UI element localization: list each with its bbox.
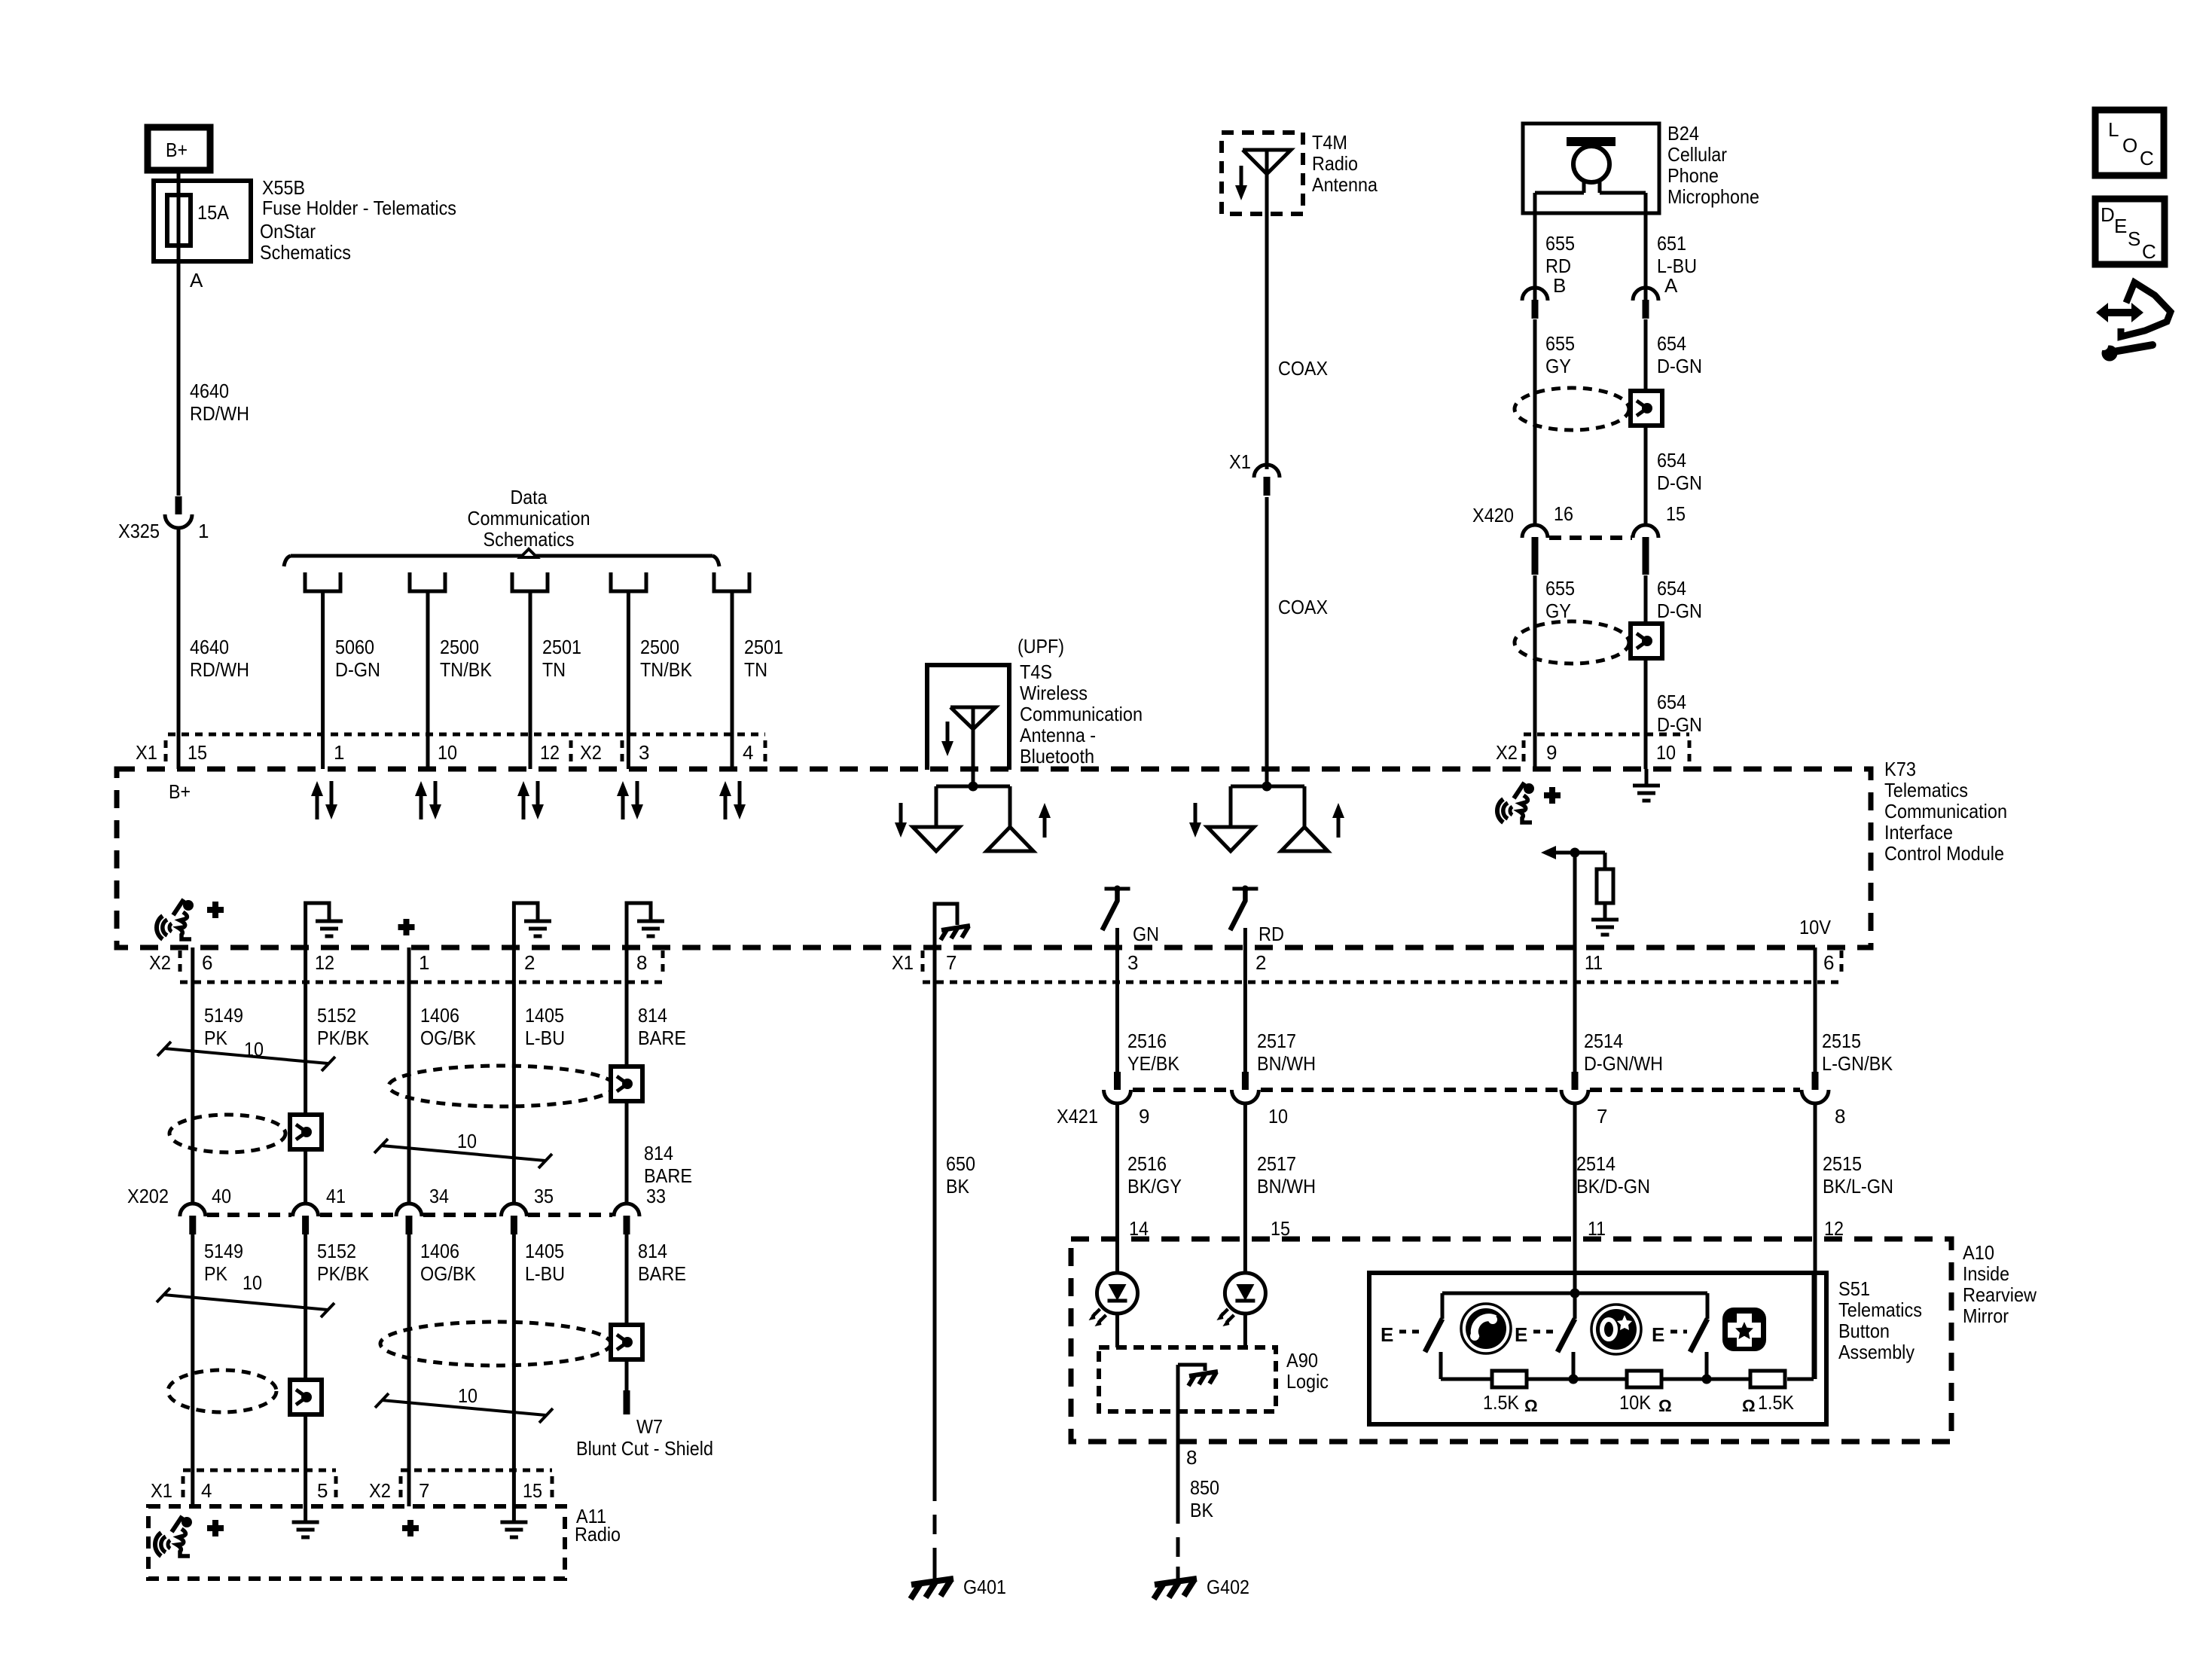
svg-text:X202: X202 <box>127 1185 169 1207</box>
arrow down (T4M pair) <box>1189 803 1201 838</box>
svg-text:Communication: Communication <box>468 507 590 529</box>
power symbol B+ <box>148 127 210 170</box>
label E switch 3 <box>1652 1323 1687 1346</box>
twisted pair ellipse 5149/5152 lower <box>168 1370 276 1412</box>
resistor 1.5K <box>1492 1371 1527 1387</box>
icon wrench <box>2099 341 2153 362</box>
svg-text:8: 8 <box>1835 1105 1845 1128</box>
wire label 1406 OG/BK <box>420 1004 477 1049</box>
svg-text:15A: 15A <box>197 201 230 224</box>
antenna symbol up (T4S) <box>987 827 1033 851</box>
svg-text:B24: B24 <box>1667 122 1699 145</box>
svg-text:BN/WH: BN/WH <box>1257 1052 1316 1075</box>
svg-text:PK/BK: PK/BK <box>317 1027 370 1049</box>
logic A90 dashed box <box>1099 1347 1276 1411</box>
svg-text:BK/GY: BK/GY <box>1127 1175 1182 1198</box>
svg-text:850: 850 <box>1190 1476 1219 1499</box>
svg-text:L-GN/BK: L-GN/BK <box>1822 1052 1893 1075</box>
svg-text:10: 10 <box>243 1271 262 1294</box>
svg-text:2: 2 <box>1256 951 1266 974</box>
connector X202 pin 33 <box>614 1185 666 1234</box>
svg-text:2516: 2516 <box>1127 1030 1167 1052</box>
svg-text:3: 3 <box>1127 951 1138 974</box>
wire label 5149 PK (2) <box>204 1240 243 1285</box>
label K73 Telematics Communication Interface Control Module <box>1884 758 2007 865</box>
bottom bus S51 with resistors <box>1441 1273 1814 1384</box>
svg-text:4640: 4640 <box>190 636 229 658</box>
radio A11 pin labels <box>151 1479 542 1502</box>
svg-text:Ω: Ω <box>1658 1396 1672 1415</box>
svg-text:2515: 2515 <box>1823 1152 1862 1175</box>
wire 2517 BN/WH lower <box>1243 1103 1247 1273</box>
terminal drop 3 (2501) <box>512 572 548 769</box>
wire 5152 PK/BK lower <box>304 1234 307 1522</box>
svg-text:Antenna: Antenna <box>1312 173 1378 196</box>
svg-text:Rearview: Rearview <box>1963 1283 2037 1306</box>
top bus S51 <box>1442 1289 1707 1298</box>
pin row X1 top labels <box>136 741 753 764</box>
ground symbol pin X2-12 <box>306 903 343 947</box>
svg-text:RD: RD <box>1259 923 1284 945</box>
connector X421 joining line <box>1133 1088 1800 1092</box>
blunt cut W7 <box>576 1390 713 1460</box>
svg-text:5149: 5149 <box>204 1240 243 1262</box>
fuse element F 15A <box>167 181 230 261</box>
antenna symbol T4M <box>1243 150 1291 214</box>
arrow down (T4S pair) <box>895 803 907 838</box>
ground symbol A11 pin 15 <box>500 1522 527 1537</box>
svg-text:W7: W7 <box>636 1415 663 1438</box>
wire 4640 RD/WH upper segment <box>177 261 181 496</box>
svg-text:E: E <box>2114 215 2127 237</box>
plus sign left mic <box>207 902 224 918</box>
connector X1 coax <box>1229 450 1280 496</box>
wire label 2516 YE/BK <box>1127 1030 1180 1075</box>
label A10 Inside Rearview Mirror <box>1963 1241 2037 1327</box>
svg-text:2515: 2515 <box>1822 1030 1861 1052</box>
svg-text:Radio: Radio <box>575 1523 621 1546</box>
svg-text:9: 9 <box>1546 741 1557 764</box>
plus sign right mic <box>1544 787 1561 804</box>
connector X421 pin 8 <box>1802 1072 1845 1128</box>
svg-text:T4M: T4M <box>1312 131 1347 154</box>
svg-text:4: 4 <box>201 1479 212 1502</box>
svg-text:4: 4 <box>743 741 753 764</box>
switch 2 (OnStar) <box>1558 1293 1575 1379</box>
wire 650 BK <box>933 947 937 1579</box>
svg-text:C: C <box>2140 147 2154 169</box>
svg-text:7: 7 <box>946 951 956 974</box>
svg-text:D: D <box>2101 203 2115 226</box>
svg-text:655: 655 <box>1545 232 1575 255</box>
svg-text:1: 1 <box>198 520 209 542</box>
emergency button icon <box>1722 1308 1766 1351</box>
svg-text:5060: 5060 <box>335 636 374 658</box>
svg-text:Logic: Logic <box>1286 1370 1329 1393</box>
svg-text:E: E <box>1515 1323 1527 1346</box>
wire label 1406 OG/BK (2) <box>420 1240 477 1285</box>
terminal drop 1 (5060) <box>305 572 340 769</box>
antenna symbol down (T4S) <box>913 827 960 851</box>
svg-text:9: 9 <box>1139 1105 1149 1128</box>
wire 2514 D-GN/WH <box>1573 947 1577 1072</box>
svg-text:TN/BK: TN/BK <box>440 658 493 681</box>
wire 5152 PK/BK upper <box>304 947 307 1204</box>
wire 1405 L-BU upper <box>512 947 516 1204</box>
svg-text:TN: TN <box>542 658 566 681</box>
microphone speaker icon left <box>157 899 194 939</box>
svg-text:COAX: COAX <box>1278 596 1328 618</box>
wire label 1405 L-BU <box>525 1004 565 1049</box>
button assembly S51 box <box>1369 1273 1826 1424</box>
antenna T4M dashed box <box>1222 133 1303 214</box>
svg-text:15: 15 <box>523 1479 542 1502</box>
switch 1 (phone) <box>1425 1293 1442 1379</box>
connector X420 pin 16 <box>1472 502 1573 575</box>
icon LOC box <box>2095 110 2164 175</box>
antenna T4S box (UPF) <box>927 665 1009 770</box>
chassis ground pin X1-7 <box>935 904 970 947</box>
LED indicator 2 <box>1216 1273 1265 1326</box>
plus sign A11 pin 7 <box>402 1520 419 1536</box>
svg-text:4640: 4640 <box>190 380 229 402</box>
wire 2515 L-GN/BK <box>1814 947 1817 1072</box>
shield drain box on 5152 <box>290 1115 322 1149</box>
wire label 2501 TN <box>542 636 581 681</box>
connector X420 pin 15 <box>1633 502 1686 575</box>
microphone symbol B24 <box>1535 137 1646 193</box>
arrow down T4S <box>941 722 953 756</box>
svg-text:10: 10 <box>457 1130 477 1152</box>
svg-text:814: 814 <box>644 1142 673 1164</box>
svg-text:Blunt Cut - Shield: Blunt Cut - Shield <box>576 1437 713 1460</box>
svg-text:41: 41 <box>326 1185 346 1207</box>
resistor inside module <box>1597 869 1613 903</box>
svg-text:Phone: Phone <box>1667 164 1719 187</box>
svg-text:T4S: T4S <box>1020 661 1052 683</box>
arrows bidirectional pin 12 <box>517 781 544 819</box>
svg-text:Antenna -: Antenna - <box>1020 724 1096 746</box>
svg-text:X1: X1 <box>892 951 914 974</box>
svg-text:Communication: Communication <box>1884 800 2007 822</box>
wire label 650 BK <box>946 1152 975 1198</box>
wire 1406 OG/BK upper <box>407 947 411 1204</box>
antenna circuit T4M inside module <box>1231 769 1304 827</box>
svg-text:15: 15 <box>1666 502 1686 525</box>
label A90 Logic <box>1286 1349 1329 1393</box>
svg-text:GY: GY <box>1545 600 1571 622</box>
svg-text:D-GN: D-GN <box>1657 600 1702 622</box>
wire label 4640 RD/WH (2) <box>190 636 249 681</box>
svg-text:1: 1 <box>419 951 429 974</box>
svg-text:TN/BK: TN/BK <box>640 658 693 681</box>
wire label 655 GY (2) <box>1545 577 1575 622</box>
wire 1405 L-BU lower <box>512 1234 516 1522</box>
svg-text:12: 12 <box>540 741 560 764</box>
twisted pair ellipse 1406/1405 upper <box>389 1066 615 1106</box>
svg-text:814: 814 <box>638 1004 667 1027</box>
svg-text:2501: 2501 <box>542 636 581 658</box>
shield drain box lower right <box>1631 624 1662 658</box>
svg-text:PK/BK: PK/BK <box>317 1262 370 1285</box>
svg-text:B: B <box>1553 274 1566 297</box>
svg-text:1405: 1405 <box>525 1240 564 1262</box>
twisted pair ellipse 655/654 lower <box>1515 621 1629 664</box>
wire 655 GY (seg 2) <box>1533 575 1537 769</box>
svg-text:L-BU: L-BU <box>525 1027 565 1049</box>
svg-text:10V: 10V <box>1799 916 1832 938</box>
switch GN pin X1-3 <box>1103 886 1160 948</box>
svg-text:A: A <box>1664 274 1678 297</box>
wire label 5149 PK <box>204 1004 243 1049</box>
wire 5149 PK upper <box>191 947 194 1204</box>
terminal drop 5 (2501) <box>714 572 749 769</box>
svg-text:Bluetooth: Bluetooth <box>1020 745 1094 767</box>
arrow up (T4S pair) <box>1039 803 1051 838</box>
mirror A10 dashed box <box>1071 1239 1951 1442</box>
svg-text:655: 655 <box>1545 332 1575 355</box>
svg-text:1405: 1405 <box>525 1004 564 1027</box>
label 1.5K ohm <box>1483 1391 1538 1415</box>
wire label 5060 D-GN <box>335 636 380 681</box>
antenna symbol T4S <box>950 707 996 769</box>
svg-text:S51: S51 <box>1838 1277 1870 1300</box>
wire 655 GY (seg 1) <box>1533 319 1537 525</box>
svg-text:G401: G401 <box>963 1576 1006 1598</box>
svg-text:X1: X1 <box>1229 450 1251 473</box>
svg-text:BK/L-GN: BK/L-GN <box>1823 1175 1893 1198</box>
svg-text:Assembly: Assembly <box>1838 1341 1915 1363</box>
microphone speaker icon A11 <box>155 1516 192 1556</box>
svg-text:B+: B+ <box>166 139 188 161</box>
svg-text:Data: Data <box>511 486 548 508</box>
svg-text:A90: A90 <box>1286 1349 1318 1372</box>
connector X325 pin 1 <box>118 496 209 542</box>
svg-text:OnStar: OnStar <box>260 220 316 243</box>
wire label 2500 TN/BK (2) <box>640 636 693 681</box>
wire label 4640 RD/WH <box>190 380 249 425</box>
arrows bidirectional pin 3 <box>617 781 643 819</box>
connector X202 pin 34 <box>396 1185 449 1234</box>
wire label 655 GY <box>1545 332 1575 377</box>
svg-text:2517: 2517 <box>1257 1030 1296 1052</box>
LED indicator 1 <box>1089 1273 1138 1326</box>
shield drain box on 814 lower <box>611 1325 642 1359</box>
svg-text:GY: GY <box>1545 355 1571 377</box>
resistor 1.5K (2) <box>1750 1371 1785 1387</box>
wire 4640 RD/WH lower segment <box>177 528 181 769</box>
twisted pair ellipse 1406/1405 lower <box>380 1322 611 1366</box>
svg-text:D-GN: D-GN <box>1657 355 1702 377</box>
svg-text:L-BU: L-BU <box>525 1262 565 1285</box>
label Data Communication Schematics <box>468 486 590 551</box>
svg-text:651: 651 <box>1657 232 1686 255</box>
wire 1406 OG/BK lower <box>407 1234 411 1506</box>
svg-text:654: 654 <box>1657 449 1686 471</box>
wire label 654 D-GN (4) <box>1657 691 1702 736</box>
svg-text:2514: 2514 <box>1576 1152 1616 1175</box>
svg-text:Interface: Interface <box>1884 821 1953 844</box>
connector X421 pin 9 <box>1057 1072 1149 1128</box>
svg-text:2: 2 <box>524 951 535 974</box>
wire label 814 BARE <box>638 1004 686 1049</box>
svg-text:Cellular: Cellular <box>1667 143 1727 166</box>
wire label 651 L-BU <box>1657 232 1697 277</box>
wire 2516 BK/GY <box>1115 1103 1119 1273</box>
svg-text:Ω: Ω <box>1742 1396 1756 1415</box>
svg-text:12: 12 <box>315 951 334 974</box>
svg-text:Button: Button <box>1838 1320 1890 1342</box>
svg-text:5152: 5152 <box>317 1240 356 1262</box>
ground symbol pin X2-8 <box>627 903 664 947</box>
size marker 10 (A-B upper) <box>157 1038 335 1071</box>
svg-text:BK/D-GN: BK/D-GN <box>1576 1175 1650 1198</box>
svg-text:D-GN: D-GN <box>1657 471 1702 494</box>
svg-text:B+: B+ <box>169 780 191 803</box>
svg-text:10: 10 <box>1656 741 1676 764</box>
svg-text:35: 35 <box>534 1185 554 1207</box>
wire label 2517 BN/WH <box>1257 1030 1316 1075</box>
svg-text:O: O <box>2122 134 2137 157</box>
microphone B24 box <box>1523 124 1659 213</box>
svg-text:OG/BK: OG/BK <box>420 1262 477 1285</box>
svg-text:YE/BK: YE/BK <box>1127 1052 1180 1075</box>
label E switch 1 <box>1381 1323 1420 1346</box>
svg-text:X2: X2 <box>1496 741 1518 764</box>
svg-text:RD/WH: RD/WH <box>190 658 249 681</box>
antenna circuit T4S inside module <box>936 769 1010 827</box>
wire 2516 YE/BK <box>1115 947 1119 1072</box>
svg-text:655: 655 <box>1545 577 1575 600</box>
arrow down T4M <box>1235 166 1247 200</box>
microphone speaker icon right <box>1497 783 1534 822</box>
wire B+ to fuse holder <box>177 170 181 184</box>
wire label 2515 BK/L-GN <box>1823 1152 1893 1198</box>
OnStar button icon <box>1591 1305 1641 1354</box>
wire label 5152 PK/BK <box>317 1004 370 1049</box>
svg-text:Radio: Radio <box>1312 152 1358 175</box>
svg-text:Communication: Communication <box>1020 703 1143 725</box>
svg-text:5152: 5152 <box>317 1004 356 1027</box>
pin row X1 bottom labels <box>892 951 1834 974</box>
ground G401 <box>911 1576 1006 1599</box>
icon DESC box <box>2095 199 2165 264</box>
svg-text:1.5K: 1.5K <box>1758 1391 1795 1414</box>
svg-text:2501: 2501 <box>744 636 783 658</box>
svg-text:X421: X421 <box>1057 1105 1098 1128</box>
label T4M Radio Antenna <box>1312 131 1378 196</box>
svg-text:1406: 1406 <box>420 1240 459 1262</box>
chassis ground inside A90 <box>1178 1365 1218 1386</box>
svg-text:10: 10 <box>244 1038 264 1060</box>
wire 814 BARE lower <box>625 1234 629 1390</box>
arrows bidirectional pin 1 <box>311 781 337 819</box>
svg-text:S: S <box>2128 227 2140 250</box>
svg-text:Telematics: Telematics <box>1884 779 1968 801</box>
radio A11 dashed box <box>148 1506 565 1579</box>
svg-text:BN/WH: BN/WH <box>1257 1175 1316 1198</box>
svg-text:Mirror: Mirror <box>1963 1305 2009 1327</box>
wire 654 D-GN (seg 2) <box>1644 575 1648 769</box>
svg-text:5: 5 <box>317 1479 328 1502</box>
svg-text:BARE: BARE <box>638 1027 686 1049</box>
svg-text:K73: K73 <box>1884 758 1916 780</box>
svg-text:TN: TN <box>744 658 767 681</box>
ground below resistor <box>1591 903 1619 935</box>
size marker 10 (A-B lower) <box>157 1271 334 1317</box>
plus sign pin X2-1 <box>398 919 415 935</box>
wire COAX lower <box>1265 497 1269 769</box>
wire COAX upper <box>1265 214 1269 469</box>
pin row X1 bottom-right dotted <box>923 951 1841 982</box>
svg-text:2500: 2500 <box>640 636 679 658</box>
arrows bidirectional pin 10 <box>415 781 441 819</box>
svg-text:8: 8 <box>636 951 647 974</box>
module K73 dashed border <box>117 769 1871 947</box>
svg-text:PK: PK <box>204 1262 228 1285</box>
shield drain box upper right <box>1631 391 1662 426</box>
label X55B Fuse Holder - Telematics <box>260 176 456 264</box>
wire 850 BK <box>1178 1365 1219 1579</box>
svg-text:11: 11 <box>1585 951 1603 974</box>
svg-text:A10: A10 <box>1963 1241 1994 1264</box>
svg-text:X55B: X55B <box>262 176 305 199</box>
wire LED2 to A90 <box>1243 1314 1247 1347</box>
antenna symbol up (T4M) <box>1281 827 1328 851</box>
wire 654 D-GN (seg 1) <box>1644 319 1648 525</box>
pin row X2 bottom-left dotted <box>180 951 663 982</box>
connector X421 pin 7 <box>1561 1072 1607 1128</box>
wire LED1 to A90 <box>1115 1314 1119 1347</box>
svg-text:D-GN/WH: D-GN/WH <box>1584 1052 1663 1075</box>
ground symbol A11 pin 5 <box>292 1522 319 1537</box>
pin row X1 top-left dotted <box>166 734 765 766</box>
svg-text:34: 34 <box>429 1185 449 1207</box>
label ohm 1.5K <box>1742 1391 1795 1415</box>
wire 814 BARE upper <box>625 947 629 1204</box>
bracket Data Communication Schematics <box>284 549 719 566</box>
svg-text:10: 10 <box>458 1384 477 1407</box>
connector X202 joining line <box>207 1213 612 1217</box>
ground symbol pin X2-2 <box>514 903 551 947</box>
connector pin A <box>1633 274 1678 319</box>
pin row X2 bottom labels <box>149 951 647 974</box>
svg-text:Inside: Inside <box>1963 1262 2009 1285</box>
wire label 654 D-GN <box>1657 332 1702 377</box>
wire label 2500 TN/BK <box>440 636 493 681</box>
svg-text:Microphone: Microphone <box>1667 185 1759 208</box>
svg-text:Ω: Ω <box>1524 1396 1538 1415</box>
svg-text:10: 10 <box>438 741 457 764</box>
svg-text:2500: 2500 <box>440 636 479 658</box>
radio A11 pin row dotted <box>183 1470 552 1502</box>
svg-text:BARE: BARE <box>638 1262 686 1285</box>
svg-text:X420: X420 <box>1472 504 1514 526</box>
switch RD pin X1-2 <box>1230 886 1284 948</box>
pin row X2 top-right dotted <box>1524 734 1689 766</box>
phone button icon <box>1461 1304 1511 1353</box>
svg-text:7: 7 <box>1597 1105 1607 1128</box>
pin row X2 top labels <box>1496 741 1676 764</box>
svg-text:E: E <box>1381 1323 1393 1346</box>
svg-text:Telematics: Telematics <box>1838 1298 1922 1321</box>
connector X202 pin 40 <box>180 1185 231 1234</box>
svg-text:33: 33 <box>646 1185 666 1207</box>
svg-text:654: 654 <box>1657 332 1686 355</box>
svg-text:7: 7 <box>419 1479 429 1502</box>
wire label 1405 L-BU (2) <box>525 1240 565 1285</box>
svg-text:COAX: COAX <box>1278 357 1328 380</box>
